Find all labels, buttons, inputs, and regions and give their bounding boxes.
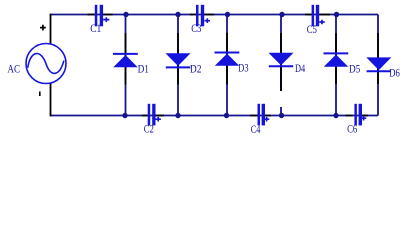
capacitor C5 [305,5,330,36]
capacitor C6 [346,104,369,136]
svg-text:D1: D1 [138,64,150,76]
svg-text:D5: D5 [349,64,361,76]
diode D5 (pointing up) [324,53,361,75]
diode D6 (pointing down) [366,57,400,79]
svg-text:C2: C2 [144,123,154,135]
diode D3 (pointing up) [215,53,249,75]
wire branch D2 [177,15,179,115]
diode D4 (pointing down) [269,53,306,75]
capacitor C3 [190,5,214,35]
wire AC bottom lead [50,83,52,117]
wire branch D6 [377,15,379,116]
svg-text:D2: D2 [190,64,202,76]
node junction dots bottom [122,113,127,118]
AC minus tick [39,92,41,97]
wire top rail [50,14,378,16]
svg-text:D6: D6 [389,68,400,80]
wire branch D3 [226,15,228,115]
capacitor C1 [88,5,113,35]
diode D1 (pointing up) [113,54,149,76]
svg-text:D4: D4 [295,63,305,75]
svg-text:D3: D3 [238,62,248,74]
diode D2 (pointing down) [166,53,202,75]
svg-text:AC: AC [7,64,20,76]
AC source U1 [26,44,66,84]
capacitor C4 [250,104,271,136]
svg-text:C3: C3 [191,23,201,35]
wire branch D4 [280,15,282,115]
wire bottom rail [50,115,378,117]
svg-text:C5: C5 [307,24,317,36]
wire branch D5 [335,15,337,115]
node junction dots top [123,12,128,17]
svg-text:C6: C6 [347,123,357,135]
AC plus mark [40,25,46,31]
svg-text:C4: C4 [251,124,261,136]
wire branch D1 [125,15,127,115]
wire AC top lead [50,14,52,44]
svg-text:C1: C1 [90,23,101,35]
capacitor C2 [142,104,164,136]
